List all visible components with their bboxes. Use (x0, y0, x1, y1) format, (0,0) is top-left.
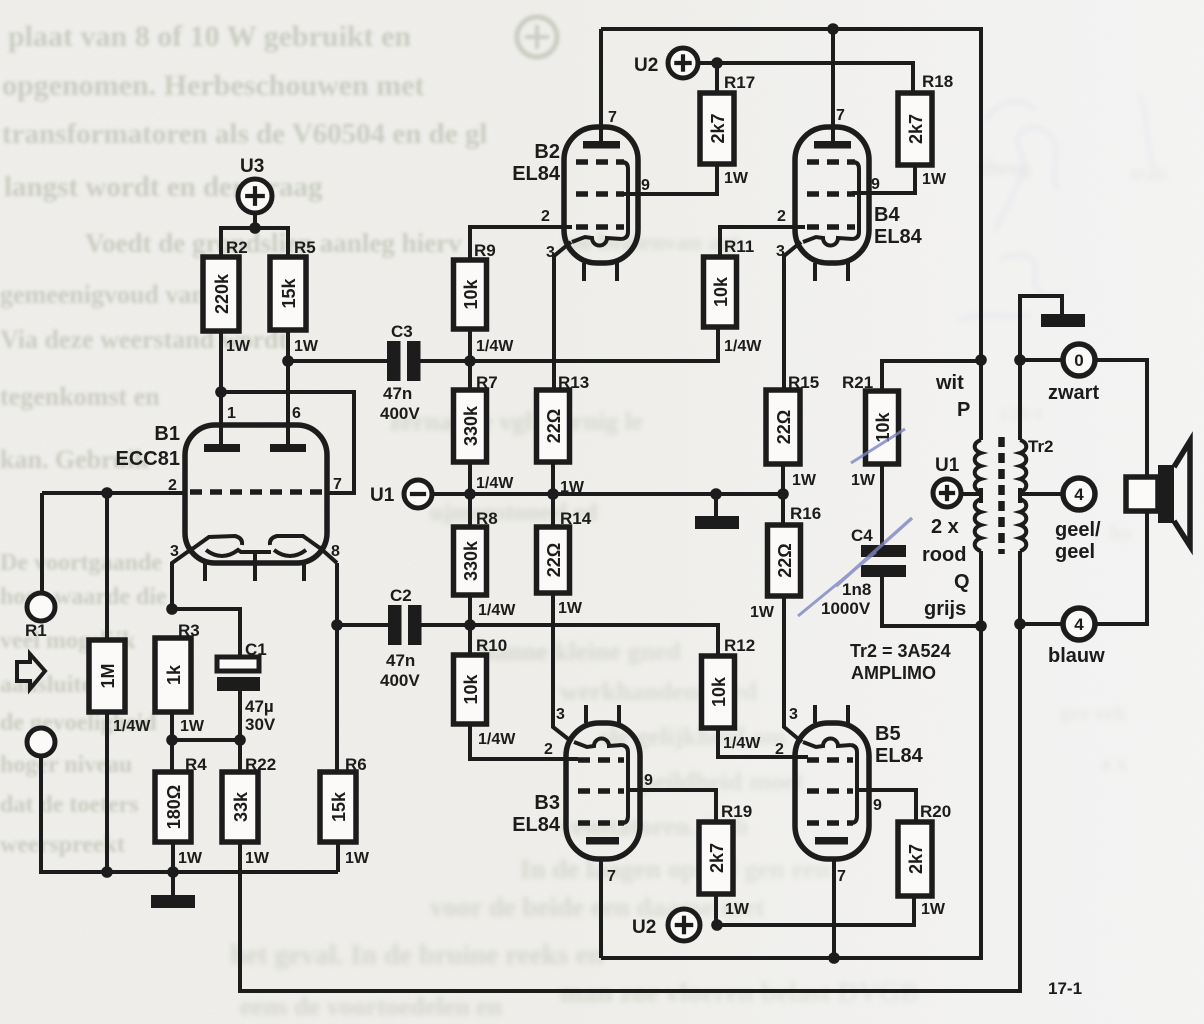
svg-text:3: 3 (170, 543, 179, 560)
svg-text:1k: 1k (164, 664, 184, 685)
svg-text:C2: C2 (390, 586, 412, 605)
svg-text:47n: 47n (386, 651, 415, 670)
wire R1 top lead (105, 493, 109, 640)
wire R21 top to primary rail (882, 361, 981, 391)
svg-text:U3: U3 (240, 156, 264, 177)
svg-text:R14: R14 (560, 509, 592, 528)
node R15/R16 junction (777, 488, 789, 500)
svg-text:1W: 1W (750, 604, 775, 621)
wire R9 top to B2 grid pin2 (470, 227, 572, 260)
input jack lower contact (27, 728, 55, 756)
svg-text:U1: U1 (935, 455, 960, 476)
resistor R3 1k 1W (155, 621, 205, 735)
node U2 bottom junction (711, 919, 723, 931)
svg-text:1: 1 (227, 405, 236, 422)
wire R3 top branch to C1 (172, 609, 240, 657)
svg-text:R19: R19 (721, 802, 752, 821)
tube B3 EL84 (512, 705, 640, 859)
svg-text:R2: R2 (226, 238, 248, 257)
svg-text:R7: R7 (476, 373, 498, 392)
wire R1 bottom lead (105, 712, 109, 872)
svg-text:R22: R22 (245, 755, 276, 774)
svg-text:9: 9 (873, 797, 882, 814)
wire B2 pin3 cathode to R13 (554, 242, 571, 390)
svg-text:2: 2 (544, 741, 553, 758)
resistor R1 1M 1/4W (25, 621, 151, 735)
svg-text:P: P (957, 399, 970, 421)
transformer Tr2 secondary winding (1020, 440, 1026, 551)
svg-text:R12: R12 (724, 636, 755, 655)
svg-text:1W: 1W (345, 850, 370, 867)
svg-text:1W: 1W (245, 850, 270, 867)
ground input ground (151, 895, 195, 908)
resistor R20 2k7 1W (898, 802, 951, 918)
svg-text:wit: wit (935, 372, 964, 394)
svg-text:9: 9 (644, 772, 653, 789)
wire secondary 0 tap (1020, 358, 1063, 362)
resistor R9 10k 1/4W (454, 241, 515, 355)
resistor R12 10k 1/4W (702, 636, 762, 752)
svg-text:R21: R21 (842, 373, 873, 392)
wire B3 pin9 screen to R19 (626, 790, 716, 822)
svg-text:Tr2 = 3A524: Tr2 = 3A524 (850, 641, 951, 661)
tube B1 ECC81 (116, 423, 337, 609)
wire R14 bottom to B3 pin3 cathode (553, 593, 572, 742)
svg-text:EL84: EL84 (512, 163, 561, 185)
resistor R22 33k 1W (222, 755, 276, 867)
svg-text:1000V: 1000V (821, 599, 871, 618)
svg-text:1W: 1W (226, 338, 251, 355)
wire bottom anode rail (Q grijs net) (601, 551, 981, 958)
wire U1 to divider (432, 492, 470, 496)
svg-text:R17: R17 (724, 73, 755, 92)
svg-text:2k7: 2k7 (906, 844, 926, 874)
wire R15-R16 junction verticals (781, 464, 785, 525)
svg-text:1/4W: 1/4W (723, 735, 761, 752)
node R1 top junction (101, 487, 113, 499)
output terminal 4 blauw (1063, 608, 1095, 640)
svg-text:R8: R8 (476, 509, 498, 528)
blue pen slash over C4 (798, 429, 912, 616)
wire U2 bottom bus to R20 (717, 896, 914, 925)
svg-text:47n: 47n (383, 384, 412, 403)
resistor R5 15k 1W (270, 238, 319, 355)
node C3/R9/R7 junction (464, 355, 476, 367)
wire secondary axis (1018, 360, 1022, 440)
node C2 tap (331, 619, 343, 631)
supply terminal U3 (238, 156, 272, 213)
wire C1 bottom lead (238, 691, 242, 740)
resistor R15 22&#937; 1W (766, 373, 819, 489)
svg-text:4: 4 (1074, 615, 1084, 634)
wire B2 pin7 anode lead (599, 29, 603, 146)
wire input grid line to B1 pin2 (42, 491, 185, 495)
node U3/R2/R5 junction (249, 222, 261, 234)
svg-text:9: 9 (641, 177, 650, 194)
node secondary bottom (1014, 618, 1026, 630)
svg-text:geel: geel (1055, 541, 1095, 563)
svg-text:7: 7 (333, 476, 342, 493)
svg-text:R4: R4 (185, 755, 207, 774)
svg-text:1/4W: 1/4W (476, 475, 514, 492)
svg-text:7: 7 (608, 109, 617, 126)
svg-text:1W: 1W (724, 170, 749, 187)
svg-text:180Ω: 180Ω (164, 785, 184, 829)
tube B4 EL84 (795, 127, 923, 281)
svg-text:U1: U1 (370, 485, 395, 506)
supply U2 top feed wire (698, 63, 913, 93)
wire feedback line R22 to secondary (240, 624, 1020, 991)
resistor R10 10k 1/4W (454, 636, 517, 748)
svg-text:B3: B3 (534, 792, 560, 814)
svg-text:R18: R18 (922, 72, 953, 91)
svg-text:400V: 400V (380, 404, 420, 423)
wire R13-R14 junction verticals (551, 462, 555, 527)
svg-text:7: 7 (836, 107, 845, 124)
svg-text:EL84: EL84 (874, 226, 923, 248)
svg-text:17-1: 17-1 (1048, 979, 1082, 998)
resistor R8 330k 1/4W (454, 509, 517, 619)
svg-text:15k: 15k (329, 791, 349, 822)
svg-text:22Ω: 22Ω (544, 543, 564, 577)
svg-text:1W: 1W (294, 338, 319, 355)
svg-text:10k: 10k (711, 276, 731, 307)
wire U3 stem (253, 213, 257, 228)
wire R3 bottom to R4 (170, 712, 174, 772)
svg-text:7: 7 (837, 868, 846, 885)
resistor R4 180&#937; 1W (155, 755, 207, 867)
node R13/R14 junction (547, 488, 559, 500)
svg-text:2: 2 (541, 208, 550, 225)
svg-text:6: 6 (292, 405, 301, 422)
wire C2 right lead to R12 top (421, 625, 718, 656)
svg-text:R5: R5 (294, 238, 316, 257)
svg-text:blauw: blauw (1048, 645, 1105, 667)
svg-text:zwart: zwart (1048, 382, 1099, 404)
svg-text:R1: R1 (25, 621, 47, 640)
resistor R21 10k 1W (842, 373, 899, 489)
svg-text:3: 3 (789, 706, 798, 723)
wire R17 bottom to B2 screen pin 9 (622, 164, 717, 194)
svg-text:R15: R15 (788, 373, 819, 392)
input arrow symbol (17, 654, 45, 689)
svg-text:R9: R9 (474, 241, 496, 260)
resistor R14 22&#937; 1W (537, 509, 592, 617)
svg-text:EL84: EL84 (875, 745, 924, 767)
wire secondary bottom tap (1020, 622, 1063, 626)
node B1 anode / pin7 grid tie (215, 386, 227, 398)
wire R21 bottom to C4 (880, 464, 884, 545)
svg-text:U2: U2 (634, 55, 658, 76)
svg-text:R13: R13 (558, 373, 589, 392)
svg-text:geel/: geel/ (1055, 519, 1101, 541)
svg-text:R10: R10 (476, 636, 507, 655)
transformer core (998, 437, 1005, 554)
wire R12 bottom to B5 grid pin2 (718, 728, 808, 757)
svg-text:47µ: 47µ (245, 697, 274, 716)
svg-text:1W: 1W (792, 472, 817, 489)
svg-text:220k: 220k (212, 273, 232, 314)
long phase-splitter reference line (470, 492, 783, 496)
svg-text:R16: R16 (790, 504, 821, 523)
wire R11 top to B4 grid pin2 (720, 227, 805, 257)
wire anode1-to-grid2 coupling (221, 392, 354, 493)
node rail/R21 junction (975, 354, 987, 366)
svg-text:R6: R6 (345, 755, 367, 774)
svg-text:2k7: 2k7 (906, 114, 926, 144)
svg-text:2: 2 (777, 208, 786, 225)
wire C3 left lead (288, 359, 387, 363)
wire ground stem (171, 872, 175, 897)
wire R10 bottom to B3 grid pin2 (470, 724, 578, 759)
svg-text:9: 9 (871, 176, 880, 193)
svg-text:10k: 10k (461, 279, 481, 310)
supply terminal U2-top (634, 48, 698, 78)
wire B5 pin9 screen to R20 (856, 790, 916, 822)
resistor R18 2k7 1W (898, 72, 953, 188)
wire R6 bottom lead (336, 842, 340, 872)
svg-text:8: 8 (331, 543, 340, 560)
svg-text:AMPLIMO: AMPLIMO (851, 663, 936, 683)
svg-text:C1: C1 (245, 640, 267, 659)
resistor R2 220k 1W (203, 238, 251, 355)
resistor R19 2k7 1W (699, 802, 752, 918)
svg-text:10k: 10k (709, 676, 729, 707)
wire B3 pin7 anode lead (599, 859, 603, 958)
svg-text:1W: 1W (921, 901, 946, 918)
svg-text:4: 4 (1074, 485, 1084, 504)
svg-text:1W: 1W (178, 850, 203, 867)
svg-text:22Ω: 22Ω (774, 410, 794, 444)
capacitor C1 47u 30V electrolytic (217, 640, 276, 734)
svg-text:1/4W: 1/4W (113, 718, 151, 735)
wire B4 pin3 cathode to R15 (784, 242, 801, 390)
transformer Tr2 primary winding (975, 440, 981, 551)
resistor R11 10k 1/4W (704, 237, 763, 355)
node R3/C1 top junction (166, 603, 178, 615)
svg-text:2 x: 2 x (931, 516, 959, 538)
node ground stub junction (710, 488, 722, 500)
svg-text:1/4W: 1/4W (724, 338, 762, 355)
wire C2 left lead (337, 623, 388, 627)
svg-text:Q: Q (954, 571, 970, 593)
svg-text:rood: rood (922, 544, 966, 566)
svg-text:R11: R11 (724, 237, 754, 256)
node R7/R8/U1 junction (464, 488, 476, 500)
loudspeaker (1126, 441, 1190, 546)
svg-text:B1: B1 (154, 423, 180, 445)
capacitor C4 1n8 1000V (821, 526, 906, 618)
node secondary top (1014, 354, 1026, 366)
wire speaker top lead (1095, 360, 1147, 477)
resistor R6 15k 1W (320, 755, 370, 867)
svg-text:1W: 1W (180, 718, 205, 735)
svg-text:R20: R20 (920, 802, 951, 821)
wire R8 bottom to R10 top (468, 595, 472, 655)
wire speaker bottom lead (1095, 511, 1147, 624)
svg-text:10k: 10k (461, 674, 481, 705)
wire R5 bottom to B1 pin6 anode (286, 330, 290, 449)
svg-text:1W: 1W (558, 600, 583, 617)
supply terminal U1-plus (933, 455, 961, 507)
node R5/C3 tap (282, 355, 294, 367)
supply terminal U2-bottom (632, 909, 700, 941)
wire input jack lower lead to ground bus (41, 756, 338, 872)
svg-text:B5: B5 (875, 723, 901, 745)
node R8/R10/C2 junction (464, 619, 476, 631)
wire input jack upper lead (40, 493, 44, 593)
svg-text:C3: C3 (391, 322, 413, 341)
svg-text:1n8: 1n8 (842, 580, 871, 599)
svg-text:2: 2 (775, 741, 784, 758)
svg-text:2k7: 2k7 (707, 843, 727, 873)
svg-text:1/4W: 1/4W (478, 731, 516, 748)
wire R16 bottom to B5 pin3 cathode (784, 596, 802, 742)
output terminal 0 zwart (1063, 344, 1095, 376)
output terminal 4 geel (1063, 478, 1095, 510)
svg-text:1W: 1W (725, 901, 750, 918)
tube B5 EL84 (795, 705, 924, 859)
svg-text:1W: 1W (560, 479, 585, 496)
svg-text:B2: B2 (534, 141, 560, 163)
wire B1 pin8 cathode lead down to R6 (335, 563, 339, 772)
svg-text:330k: 330k (461, 405, 481, 446)
capacitor C2 47n 400V (380, 586, 422, 690)
wire R19 bottom to U2 node (714, 894, 718, 925)
page bleed-through texture (decorative) (0, 17, 557, 858)
svg-text:2k7: 2k7 (708, 113, 728, 143)
wire R18 bottom to B4 screen pin 9 (852, 165, 915, 193)
svg-text:R3: R3 (178, 621, 200, 640)
wire C3 right lead to R11 bottom (420, 327, 718, 361)
node B5 anode junction (828, 952, 840, 964)
node U2/R17 junction (711, 57, 723, 69)
svg-text:7: 7 (607, 868, 616, 885)
svg-text:1W: 1W (851, 472, 876, 489)
wire B4 pin7 anode lead (831, 29, 835, 146)
wire R7-R8 through U1 node (468, 462, 472, 527)
capacitor C3 47n 400V (380, 322, 421, 423)
svg-text:330k: 330k (461, 540, 481, 581)
svg-text:30V: 30V (245, 715, 276, 734)
wire C4 bottom to rail (882, 577, 981, 626)
svg-text:1/4W: 1/4W (478, 602, 516, 619)
supply terminal U1-minus (370, 480, 432, 508)
wire R22 top lead (238, 740, 242, 772)
svg-text:1M: 1M (98, 663, 118, 688)
wire middle ground stub (714, 494, 718, 517)
resistor R16 22&#937; 1W (750, 504, 821, 621)
svg-text:1/4W: 1/4W (476, 338, 514, 355)
svg-text:grijs: grijs (924, 598, 966, 620)
svg-text:22Ω: 22Ω (544, 409, 564, 443)
node R1 bottom junction (101, 866, 113, 878)
wire top anode rail (wit P net) (601, 29, 981, 440)
node R3/R4 junction (166, 734, 178, 746)
svg-text:ECC81: ECC81 (116, 448, 180, 470)
wire secondary ground link (1020, 296, 1062, 360)
svg-text:400V: 400V (380, 671, 420, 690)
wire secondary centre tap to 4 geel (1020, 492, 1063, 496)
svg-text:22Ω: 22Ω (775, 543, 795, 577)
resistor R7 330k 1/4W (454, 373, 515, 492)
blue pen scribbles (decorative) (960, 95, 1155, 320)
wire R4 bottom lead (171, 842, 175, 872)
node rail/C4 junction (975, 620, 987, 632)
tube B2 EL84 (512, 127, 638, 281)
input jack upper contact (27, 593, 55, 621)
svg-text:B4: B4 (874, 204, 900, 226)
wire U1 to primary centre tap (961, 492, 981, 496)
node R4 ground junction (167, 866, 179, 878)
node B4 anode junction (827, 23, 839, 35)
wire R3-R4 node branch to C1/R22 (172, 738, 240, 742)
ground secondary ground (1041, 314, 1085, 327)
resistor R13 22&#937; 1W (537, 373, 590, 496)
node C1/R22 junction (234, 734, 246, 746)
ground phase splitter ground (695, 516, 739, 529)
wire R17 top lead (715, 63, 719, 93)
svg-text:3: 3 (556, 706, 565, 723)
svg-text:33k: 33k (231, 791, 251, 822)
svg-text:EL84: EL84 (512, 814, 561, 836)
wire R9/R7 junction verticals (468, 329, 472, 390)
wire R2-R5 top link (221, 228, 288, 257)
svg-text:C4: C4 (851, 526, 873, 545)
svg-text:0: 0 (1074, 351, 1083, 370)
svg-text:U2: U2 (632, 917, 656, 938)
svg-text:1W: 1W (922, 171, 947, 188)
wire R2 bottom to B1 pin1 anode (219, 331, 223, 449)
wire B5 pin7 anode lead (832, 859, 836, 958)
svg-text:Tr2: Tr2 (1028, 437, 1054, 456)
svg-text:15k: 15k (279, 278, 299, 309)
resistor R17 2k7 1W (700, 73, 755, 187)
